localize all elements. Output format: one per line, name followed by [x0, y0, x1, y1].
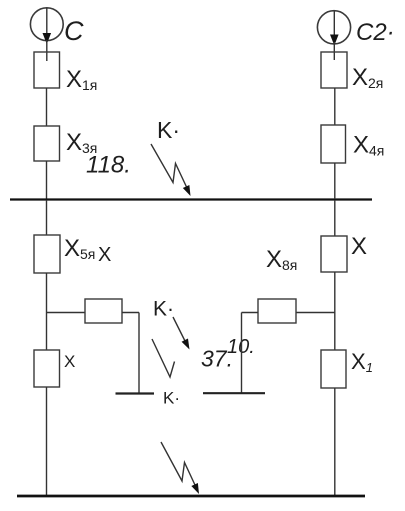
svg-text:X: X	[351, 233, 367, 260]
wire	[46, 40, 48, 61]
wire	[296, 312, 335, 314]
wire	[241, 313, 243, 394]
bus 1	[10, 198, 372, 200]
wire	[122, 312, 139, 314]
svg-text:X1: X1	[351, 349, 373, 375]
svg-text:X5я: X5я	[64, 235, 95, 262]
svg-text:X8я: X8я	[266, 246, 297, 273]
terminal bar right	[203, 392, 265, 394]
wire	[334, 272, 336, 350]
svg-text:X: X	[98, 244, 111, 266]
reactor X lower left	[34, 350, 60, 387]
label 10	[227, 336, 255, 358]
wire	[47, 312, 86, 314]
fault K2 arrow	[173, 317, 193, 351]
svg-text:X4я: X4я	[353, 132, 384, 159]
svg-text:K·: K·	[157, 117, 180, 143]
wire	[46, 88, 48, 126]
wire	[333, 42, 335, 60]
fault label K3	[163, 389, 180, 408]
wire	[46, 161, 48, 199]
fault K1 lightning arrow	[151, 144, 194, 198]
label 118	[86, 152, 131, 179]
svg-text:C2·: C2·	[356, 19, 395, 46]
wire	[46, 387, 48, 495]
label C	[64, 16, 84, 46]
svg-text:K·: K·	[153, 298, 174, 321]
reactor right upper	[321, 236, 347, 272]
svg-text:118.: 118.	[86, 152, 131, 179]
label X5я	[64, 235, 95, 262]
fault label K1	[157, 117, 180, 143]
svg-text:X2я: X2я	[352, 64, 383, 91]
reactor X4я	[321, 125, 346, 163]
label X8я	[266, 246, 297, 273]
wire	[242, 312, 259, 314]
source C1 arrow	[43, 8, 52, 44]
label X1я	[66, 66, 97, 93]
source C2 arrow	[330, 11, 339, 46]
label X4я	[353, 132, 384, 159]
label X3я	[66, 129, 97, 156]
svg-text:K·: K·	[163, 389, 180, 408]
reactor X3я	[34, 126, 60, 161]
resistor left horizontal	[85, 299, 122, 323]
reactor X5я	[34, 235, 60, 273]
label C2	[356, 19, 395, 46]
label X (after X5я)	[98, 244, 111, 266]
source C1 circle	[30, 8, 63, 41]
wire	[334, 388, 336, 495]
label X lower left	[64, 352, 75, 371]
fault lightning arrow bottom	[161, 442, 202, 496]
wire	[46, 200, 48, 235]
resistor right horizontal	[258, 299, 296, 323]
source C2 circle	[317, 11, 350, 44]
reactor X2я	[321, 52, 347, 88]
fault label K2	[153, 298, 174, 321]
wire	[334, 163, 336, 199]
bus 2	[17, 495, 365, 498]
label X2я	[352, 64, 383, 91]
label X1 lower right	[351, 349, 373, 375]
label 37	[201, 346, 233, 372]
reactor X1я	[34, 52, 60, 88]
svg-text:X1я: X1я	[66, 66, 97, 93]
svg-text:C: C	[64, 16, 84, 46]
wire	[46, 273, 48, 350]
reactor X1 lower right	[321, 350, 346, 388]
svg-text:X: X	[64, 352, 75, 371]
switch zigzag mark	[152, 339, 175, 377]
wire	[334, 200, 336, 236]
terminal bar left	[116, 392, 155, 394]
label X (right of right reactor)	[351, 233, 367, 260]
wire	[138, 313, 140, 394]
wire	[334, 88, 336, 125]
